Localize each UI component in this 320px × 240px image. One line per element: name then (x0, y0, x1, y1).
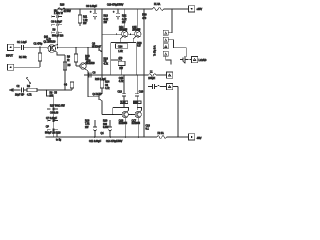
resistor R4 (27, 88, 37, 91)
node dots on collector row (75, 47, 76, 48)
wire T1 to rail (168, 9, 172, 33)
svg-text:INPUT: INPUT (6, 56, 14, 58)
capacitor C14 to lower rail (108, 120, 112, 137)
svg-text:R20: R20 (103, 120, 108, 122)
svg-text:R9: R9 (53, 29, 57, 31)
svg-text:R11: R11 (83, 16, 88, 18)
left ladder spine wire (47, 90, 54, 137)
svg-text:R27 560Ω 5W: R27 560Ω 5W (50, 106, 65, 108)
svg-text:7.5k: 7.5k (83, 20, 88, 22)
wire output line (84, 74, 149, 76)
wire Q2 collector up (87, 48, 89, 61)
svg-text:R16: R16 (85, 120, 90, 122)
svg-text:100µH: 100µH (148, 78, 155, 80)
svg-text:1.0k: 1.0k (118, 51, 123, 53)
capacitor C10 to rail (116, 9, 120, 20)
svg-text:to fig: to fig (56, 138, 62, 141)
svg-text:L1: L1 (150, 72, 153, 74)
wire R24 down (121, 65, 123, 75)
svg-text:LOAD: LOAD (199, 58, 207, 62)
svg-text:C1 1.0µF: C1 1.0µF (17, 42, 27, 44)
resistor R5 on emitter leg (63, 62, 66, 70)
wire emitter header (111, 39, 136, 42)
speaker symbol (180, 56, 188, 63)
capacitor C13 branch (122, 75, 126, 101)
svg-text:C2 470p: C2 470p (34, 43, 44, 45)
svg-text:C9 0.68µF: C9 0.68µF (86, 6, 97, 8)
svg-text:1 kHz W: 1 kHz W (54, 13, 64, 15)
svg-text:R4: R4 (27, 86, 31, 88)
inductor L2 on rail start (58, 8, 68, 10)
RC branch row 7 (48, 129, 58, 132)
svg-text:470: 470 (142, 18, 147, 20)
terminal T4 (163, 51, 168, 56)
svg-text:+55V: +55V (197, 9, 203, 11)
svg-text:R16: R16 (85, 56, 90, 58)
svg-text:MJ2955: MJ2955 (119, 123, 128, 125)
svg-text:C14 470µF/50V: C14 470µF/50V (106, 141, 123, 143)
svg-text:7.5k: 7.5k (85, 124, 90, 126)
svg-text:C18: C18 (146, 126, 151, 128)
wire Q6 emitter down (102, 101, 110, 115)
svg-text:4.7k: 4.7k (104, 64, 109, 66)
wire top supply rail (58, 8, 189, 10)
terminal output (167, 72, 173, 78)
svg-text:C13: C13 (118, 92, 123, 94)
svg-text:C11 0.68µF: C11 0.68µF (89, 141, 102, 143)
input terminal J2 (8, 64, 14, 70)
resistor R30 drop from rail (143, 9, 145, 20)
capacitor C9 to rail (93, 9, 97, 20)
svg-text:C6 0.68: C6 0.68 (50, 112, 59, 114)
svg-text:F1 5A: F1 5A (154, 3, 161, 6)
terminal T1 (163, 30, 168, 35)
svg-text:10µF NP: 10µF NP (15, 94, 25, 96)
wire Q6 base feed (88, 75, 99, 97)
wire T4 down (166, 56, 171, 64)
capacitor C2 (22, 88, 26, 93)
svg-text:4.7k: 4.7k (27, 94, 32, 96)
svg-text:560pF 1% R28: 560pF 1% R28 (45, 133, 61, 135)
svg-text:C24: C24 (118, 46, 123, 48)
wire Q17 top links (124, 108, 142, 111)
transistor Q17 output lower (135, 111, 141, 117)
svg-text:470: 470 (118, 58, 123, 60)
resistor R7 vertical (71, 88, 73, 90)
wire right spine (135, 43, 137, 76)
trimmer arrow (26, 77, 30, 83)
RC branch row 5 (48, 108, 58, 111)
RC branch row 6 (48, 119, 58, 122)
RC branch row 1 (52, 15, 62, 18)
svg-text:MJ2955: MJ2955 (132, 123, 141, 125)
svg-text:4.7k: 4.7k (105, 88, 110, 90)
terminal T3 (163, 44, 168, 49)
wire lower rail start drop (56, 133, 58, 138)
svg-text:C16: C16 (139, 92, 144, 94)
svg-text:2W: 2W (85, 127, 89, 129)
svg-text:R5: R5 (68, 65, 72, 67)
wire Q2 emitter down (87, 71, 89, 75)
node dots bottom rail (94, 136, 179, 138)
node dots feedback (46, 89, 47, 90)
fuse F1 (153, 8, 164, 11)
svg-text:0.5: 0.5 (137, 46, 141, 48)
svg-text:MJE340: MJE340 (92, 46, 101, 48)
svg-text:+: + (90, 12, 92, 14)
svg-text:0.1: 0.1 (146, 129, 150, 131)
wire Q1 collector row (59, 46, 100, 48)
resistor R19 box (120, 101, 128, 104)
svg-text:4Ω 5W: 4Ω 5W (64, 11, 72, 13)
svg-text:R6: R6 (67, 57, 71, 59)
node input bias (39, 47, 40, 48)
svg-text:4.7k: 4.7k (46, 39, 51, 41)
svg-text:C3 0.68µF: C3 0.68µF (51, 22, 62, 24)
wire ground input row (14, 66, 40, 68)
fuse F2 (157, 136, 166, 139)
svg-text:CP: CP (46, 127, 50, 129)
wire rail start drop (57, 9, 59, 48)
svg-text:Q3: Q3 (92, 43, 96, 45)
resistor R2 vertical (39, 47, 41, 67)
capacitor C12 to lower rail (93, 120, 97, 137)
svg-text:C8: C8 (105, 85, 109, 87)
wire bias tap (111, 60, 122, 61)
transistor Q16 output lower (122, 111, 128, 117)
wire left spine (110, 43, 112, 76)
svg-text:C15: C15 (119, 78, 124, 80)
svg-text:-55V: -55V (197, 138, 202, 140)
svg-text:MJE520: MJE520 (86, 63, 95, 65)
svg-text:C5: C5 (54, 93, 58, 95)
transistor Q1 (48, 45, 56, 53)
svg-text:4.7k: 4.7k (119, 81, 124, 83)
svg-text:Q4: Q4 (101, 133, 105, 135)
capacitor C16 branch (135, 75, 139, 101)
arrow off page (10, 89, 15, 92)
wire bias feed (101, 9, 103, 75)
svg-text:+: + (113, 12, 115, 14)
svg-text:R30: R30 (142, 14, 147, 16)
svg-text:2W: 2W (104, 22, 108, 24)
svg-text:R14: R14 (105, 81, 110, 83)
terminal T2 (163, 37, 168, 42)
phone jack symbol (148, 84, 167, 89)
svg-text:6.8k: 6.8k (104, 19, 109, 21)
feedback line (14, 89, 72, 91)
svg-text:2W: 2W (122, 22, 126, 24)
resistor R24 box (118, 61, 125, 65)
RC branch row 2 (52, 24, 62, 27)
capacitor C8 on output line (89, 73, 91, 78)
terminal -V supply (189, 134, 195, 140)
svg-text:C2: C2 (17, 86, 21, 88)
svg-text:C10 470µF/50V: C10 470µF/50V (107, 4, 124, 6)
terminal +V supply (189, 6, 195, 12)
wire input row (14, 46, 48, 48)
svg-text:C8: C8 (93, 72, 97, 74)
svg-text:100: 100 (103, 124, 108, 126)
wire Q1 emitter drop (57, 52, 65, 55)
svg-text:R1 56k: R1 56k (19, 57, 27, 59)
svg-text:R8: R8 (50, 93, 54, 95)
svg-text:Q1 2N5210: Q1 2N5210 (44, 42, 57, 44)
node junction dots on top rail (79, 8, 173, 10)
resistor R14 vertical (101, 75, 103, 80)
resistor R23 box (116, 44, 128, 49)
RC branch row 3 (52, 31, 62, 34)
svg-text:C4: C4 (64, 84, 68, 86)
wire base line of output pair (102, 33, 135, 35)
transistor Q2 (76, 65, 81, 67)
inductor L1 (149, 74, 167, 77)
wire between bases (128, 114, 134, 116)
svg-text:R26: R26 (60, 5, 65, 7)
node dots at output bases (116, 34, 117, 35)
resistor R21 box (134, 101, 142, 104)
resistor R11 drop from rail (79, 9, 81, 26)
resistor R6 vertical to Q2 base (75, 48, 77, 66)
svg-text:1k: 1k (67, 60, 70, 62)
terminal speaker (192, 56, 198, 62)
svg-text:R13: R13 (104, 15, 109, 17)
capacitor C1 (22, 45, 26, 50)
wire T2 to speaker (168, 40, 186, 57)
wire lower bias link (110, 108, 124, 115)
svg-text:0.5W: 0.5W (103, 127, 109, 129)
svg-text:To Fig 5-A: To Fig 5-A (154, 45, 157, 56)
svg-text:R23: R23 (137, 43, 142, 45)
wire rail drop far right (143, 20, 145, 137)
wire bottom supply rail (46, 136, 189, 138)
wire jack return (173, 87, 178, 138)
svg-text:F2 5A: F2 5A (158, 132, 165, 135)
terminal jack (167, 84, 173, 90)
svg-text:2W: 2W (83, 23, 87, 25)
input terminal J1 (8, 44, 14, 50)
